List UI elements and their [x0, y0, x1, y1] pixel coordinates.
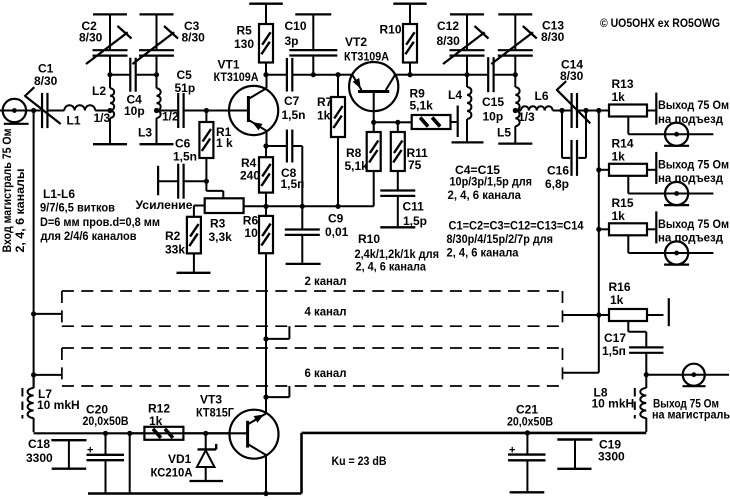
wire C10-R7node [313, 74, 338, 76]
label R3 value [209, 230, 233, 244]
core L8 [634, 388, 636, 419]
label VT3 type [196, 406, 234, 420]
terminal bar R9 [457, 106, 459, 138]
label R7 [317, 95, 333, 109]
svg-text:VD1: VD1 [168, 452, 192, 466]
inductor L8 [640, 375, 646, 432]
node R7 bottom [335, 204, 340, 209]
ground C21 [510, 491, 545, 493]
label L2 tap [94, 111, 111, 125]
label C2 value [79, 31, 103, 45]
label C8 value [281, 177, 305, 191]
resistor R11 [391, 122, 405, 190]
wire left boxA [34, 313, 62, 315]
potentiometer R3 [205, 198, 244, 213]
label 6 канал [305, 366, 347, 380]
node C10 rail [311, 72, 316, 77]
svg-text:C9: C9 [328, 212, 344, 226]
node L5 tap [513, 108, 518, 113]
svg-text:VT3: VT3 [200, 393, 222, 407]
svg-text:130: 130 [234, 37, 254, 51]
label VT2 [345, 35, 367, 49]
wall terminal R16 [668, 298, 670, 326]
svg-text:1,5n: 1,5n [282, 108, 306, 122]
terminal bar C13 [498, 13, 532, 15]
wire mid bus [265, 253, 267, 413]
wire R9-bar [451, 121, 457, 123]
diode VD1 КС210А zener [197, 433, 216, 481]
wall terminal R13 [655, 93, 657, 125]
terminal bar C2 [93, 13, 127, 15]
node R4/R6 rail [263, 204, 268, 209]
node bus R14 [596, 167, 601, 172]
label C1 value [34, 74, 58, 88]
svg-text:2 канал: 2 канал [305, 274, 347, 288]
label C10 value [285, 34, 299, 48]
label R14 value [612, 149, 626, 163]
label R5 [237, 24, 253, 38]
label R1 value [216, 136, 233, 150]
resistor R14 [599, 164, 656, 176]
resistor R15 [599, 223, 656, 235]
label Выход 75 Ом 2 [658, 157, 729, 171]
node R1 top [204, 108, 209, 113]
label 2, 4, 6 каналы (rotated) [13, 169, 27, 253]
wire C5-VT1 base [184, 110, 249, 112]
label C2 [82, 19, 98, 33]
node R5/VT1 collector [263, 72, 268, 77]
svg-text:L4: L4 [448, 88, 462, 102]
label R7 value [317, 109, 331, 123]
label R3 [210, 217, 226, 231]
svg-text:2, 4, 6 канала: 2, 4, 6 канала [447, 246, 519, 260]
svg-text:Выход 75 Ом: Выход 75 Ом [658, 157, 729, 171]
note L1-L6 line4 [41, 229, 137, 243]
svg-text:10p: 10p [483, 110, 504, 124]
label R11 value [408, 158, 422, 172]
node left bus box A [31, 311, 36, 316]
label C21 value [507, 415, 553, 429]
label C4 [127, 93, 143, 107]
svg-text:L6: L6 [535, 89, 549, 103]
ground VD1 [190, 480, 224, 482]
svg-text:R3: R3 [210, 217, 226, 231]
label L3 tap [162, 110, 179, 124]
label C13 value [541, 30, 565, 44]
label R5 value [234, 37, 254, 51]
svg-text:5,1k: 5,1k [345, 159, 369, 173]
svg-text:D=6 мм пров.d=0,8 мм: D=6 мм пров.d=0,8 мм [40, 215, 160, 229]
svg-text:8/30: 8/30 [541, 30, 565, 44]
label C12 [437, 19, 459, 33]
wire left bus down [33, 111, 35, 389]
svg-text:R14: R14 [612, 136, 634, 150]
svg-text:C16: C16 [547, 164, 569, 178]
node C12/L4 [464, 72, 469, 77]
svg-text:1,5п: 1,5п [281, 177, 305, 191]
node output bus top [596, 108, 601, 113]
label L8 value [592, 397, 635, 411]
svg-text:1k: 1k [612, 149, 626, 163]
label C11 value [403, 214, 427, 228]
wire C7-C10 [292, 74, 313, 76]
label C18 [28, 437, 50, 451]
label Вход магистраль 75 Ом (rotated) [0, 128, 14, 252]
label C7 value [282, 108, 306, 122]
capacitor C6 [178, 164, 183, 199]
wire step boxA [266, 326, 289, 339]
capacitor C17 [629, 347, 663, 374]
wire left rail [34, 432, 230, 434]
svg-text:L5: L5 [497, 126, 511, 140]
wire to R9 [398, 121, 412, 123]
svg-text:на подъезд: на подъезд [658, 171, 723, 185]
svg-text:C18: C18 [28, 437, 50, 451]
terminal bar R10 [393, 3, 426, 5]
svg-text:на магистраль: на магистраль [652, 408, 730, 422]
svg-text:R7: R7 [317, 95, 333, 109]
capacitor C20 electrolytic [87, 433, 125, 493]
svg-text:C1=C2=C3=C12=C13=C14: C1=C2=C3=C12=C13=C14 [449, 219, 584, 233]
label L1 [67, 114, 81, 128]
capacitor C8 [287, 130, 292, 163]
transistor VT3 КТ815Г [230, 410, 279, 494]
label R13 [612, 77, 634, 91]
label VT1 type [214, 70, 259, 84]
note C4=C15 line3 [448, 188, 522, 202]
node C20 top [103, 431, 108, 436]
capacitor C10 [289, 16, 337, 75]
node R11 top [395, 120, 400, 125]
capacitor C19 [557, 440, 592, 469]
label C19 value [598, 450, 625, 464]
svg-text:R13: R13 [612, 77, 634, 91]
label L4 [448, 88, 462, 102]
svg-text:КТ3109А: КТ3109А [344, 50, 389, 64]
svg-text:КТ815Г: КТ815Г [196, 406, 234, 420]
svg-text:КС210А: КС210А [151, 466, 193, 480]
label L8 [594, 386, 608, 400]
label C3 value [182, 31, 206, 45]
wire node-C7 [266, 74, 287, 76]
capacitor C21 electrolytic [508, 433, 546, 491]
note C1= line3 [447, 246, 519, 260]
wire L1-L2 [95, 110, 110, 112]
svg-text:R8: R8 [346, 146, 362, 160]
inductor L1 [64, 105, 95, 110]
inductor L2 [110, 75, 114, 144]
svg-text:3300: 3300 [26, 451, 53, 465]
ground C11 [380, 226, 415, 228]
wire right boxA [563, 314, 599, 316]
terminal bar C12 [450, 13, 484, 15]
label R6 [243, 214, 259, 228]
wire emitter-C8 [266, 145, 287, 147]
node left bus box B [31, 372, 36, 377]
capacitor C3 8/30 [133, 16, 179, 75]
svg-text:2, 4, 6 канала: 2, 4, 6 канала [356, 260, 427, 274]
label C16 [547, 164, 569, 178]
svg-text:1,5п: 1,5п [602, 344, 626, 358]
svg-text:3,3k: 3,3k [209, 230, 233, 244]
label C20 [86, 403, 108, 417]
svg-text:1k: 1k [149, 414, 163, 428]
label C6 [175, 137, 191, 151]
node mid bus step A [263, 336, 268, 341]
node L3 tap [154, 108, 159, 113]
svg-text:10: 10 [244, 226, 258, 240]
label R12 value [149, 414, 163, 428]
wire L6-C14 [553, 110, 572, 112]
label R13 value [612, 90, 626, 104]
note L1-L6 line1 [43, 187, 75, 201]
note L1-L6 line2 [40, 201, 115, 215]
svg-text:3300: 3300 [598, 450, 625, 464]
node C13/L5 [513, 72, 518, 77]
label R4 value [240, 169, 260, 183]
svg-text:8/30: 8/30 [34, 74, 58, 88]
wire C1-L1 [47, 110, 64, 112]
label 4 канал [305, 305, 347, 319]
label VT3 [200, 393, 222, 407]
svg-text:© UO5OHX ex RO5OWG: © UO5OHX ex RO5OWG [600, 16, 720, 30]
capacitor C15 [488, 57, 493, 92]
input coax connector XW1 [3, 99, 29, 124]
resistor R12 1k [130, 427, 206, 440]
wall terminal R14 [655, 152, 657, 184]
output connector 1 [664, 123, 689, 146]
wire L5tap-L6 [515, 110, 521, 112]
note Ku [332, 454, 387, 468]
note R10 line2 [355, 247, 440, 261]
node R10 bottom [407, 72, 412, 77]
svg-text:на подъезд: на подъезд [658, 112, 723, 126]
svg-text:R15: R15 [612, 196, 634, 210]
svg-text:C6: C6 [175, 137, 191, 151]
node mid bus step B [263, 395, 268, 400]
svg-text:L1-L6: L1-L6 [43, 187, 75, 201]
svg-text:1/2: 1/2 [162, 110, 179, 124]
svg-text:C5: C5 [177, 68, 193, 82]
label R14 [612, 136, 634, 150]
output connector 3 [664, 241, 689, 264]
label на подъезд 2 [658, 171, 723, 185]
terminal bar R5 [249, 3, 283, 5]
svg-text:240: 240 [240, 169, 260, 183]
label C9 value [325, 225, 349, 239]
label C8 [281, 166, 297, 180]
label L7 value [37, 398, 80, 412]
label R6 value [244, 226, 258, 240]
wire R10-C12 [410, 74, 467, 76]
wire step boxB [266, 386, 289, 397]
svg-text:КТ3109А: КТ3109А [214, 70, 259, 84]
svg-text:10 mkH: 10 mkH [592, 397, 635, 411]
label R9 value [410, 99, 434, 113]
label C4 value [124, 104, 145, 118]
wire C16 loop [562, 111, 586, 158]
svg-text:Вход магистраль 75 Ом: Вход магистраль 75 Ом [0, 128, 14, 252]
resistor R6 [259, 206, 273, 253]
resistor R5 [259, 4, 273, 75]
label L6 [535, 89, 549, 103]
label R2 [165, 229, 181, 243]
terminal bar C10 [295, 13, 331, 15]
svg-text:R2: R2 [165, 229, 181, 243]
label Усиление [136, 198, 193, 212]
svg-text:0,01: 0,01 [325, 225, 349, 239]
copyright [600, 16, 720, 30]
node VD1 top [203, 431, 208, 436]
svg-text:5,1k: 5,1k [410, 99, 434, 113]
svg-text:33k: 33k [165, 243, 185, 257]
label C5 value [175, 81, 196, 95]
output connector 4 [683, 364, 706, 387]
capacitor C5 [178, 93, 183, 128]
svg-text:C17: C17 [604, 331, 626, 345]
svg-text:3p: 3p [285, 34, 299, 48]
label R15 [612, 196, 634, 210]
resistor R2 [187, 217, 201, 272]
ground R2 [177, 272, 211, 274]
svg-text:1k: 1k [610, 293, 624, 307]
label C17 value [602, 344, 626, 358]
resistor R13 [599, 105, 656, 117]
label R10 [380, 23, 402, 37]
node C14 left [559, 108, 564, 113]
node R7 top [335, 72, 340, 77]
label Выход 75 Ом 3 [658, 217, 729, 231]
label C14 value [560, 69, 584, 83]
wire base line [374, 121, 398, 123]
label C12 value [437, 34, 461, 48]
label C7 [284, 94, 300, 108]
capacitor C18 [51, 440, 86, 469]
label R4 [241, 156, 257, 170]
ground L2 [93, 143, 127, 145]
svg-text:4 канал: 4 канал [305, 305, 347, 319]
wire input line [0, 110, 41, 112]
node C17/L8 [644, 372, 649, 377]
svg-text:1k: 1k [612, 209, 626, 223]
svg-text:20,0x50В: 20,0x50В [507, 415, 553, 429]
resistor R4 [259, 146, 273, 206]
inductor L5 [515, 75, 519, 143]
label R11 [407, 146, 429, 160]
inductor L6 [521, 106, 553, 110]
inductor L4 [467, 75, 471, 142]
resistor R7 [331, 75, 345, 207]
label на подъезд 1 [658, 112, 723, 126]
capacitor C11 [380, 191, 415, 227]
ground L3 [140, 143, 174, 145]
note L1-L6 line3 [40, 215, 160, 229]
inductor L3 [157, 75, 161, 144]
svg-text:6,8p: 6,8p [545, 177, 569, 191]
svg-text:VT2: VT2 [345, 35, 367, 49]
svg-text:8/30: 8/30 [79, 31, 103, 45]
svg-text:1k: 1k [612, 90, 626, 104]
label L3 [138, 126, 152, 140]
label C10 [285, 19, 307, 33]
ground L4 [452, 141, 484, 143]
label VT1 [218, 58, 240, 72]
label C6 value [173, 150, 197, 164]
capacitor C4 [130, 58, 135, 92]
label C16 value [545, 177, 569, 191]
note C4=C15 line1 [455, 163, 500, 177]
capacitor C9 [285, 206, 320, 262]
label R12 [148, 402, 170, 416]
label C14 [561, 58, 583, 72]
svg-text:10 mkH: 10 mkH [37, 398, 80, 412]
svg-text:Выход 75 Ом: Выход 75 Ом [658, 98, 729, 112]
svg-text:1,5р: 1,5р [403, 214, 427, 228]
wire VT2-R10 [395, 74, 410, 76]
label C11 [403, 200, 425, 214]
wire bottom ground rail [88, 492, 302, 495]
transistor VT2 КТ3109А [349, 62, 398, 122]
label 2 канал [305, 274, 347, 288]
node VT3 collector ground [263, 491, 268, 496]
note R10 line3 [356, 260, 427, 274]
svg-text:L3: L3 [138, 126, 152, 140]
wire right return rail [302, 432, 647, 435]
capacitor C16 [572, 140, 578, 176]
node L2 tap [107, 108, 112, 113]
wire left boxB [34, 374, 62, 376]
svg-text:для 2/4/6 каналов: для 2/4/6 каналов [41, 229, 137, 243]
label R1 [216, 125, 232, 139]
svg-text:2, 4, 6 каналы: 2, 4, 6 каналы [13, 169, 27, 253]
svg-text:9/7/6,5 витков: 9/7/6,5 витков [40, 201, 115, 215]
label R8 value [345, 159, 369, 173]
label C15 [482, 95, 504, 109]
svg-text:C12: C12 [437, 19, 459, 33]
label C15 value [483, 110, 504, 124]
node rail wire [127, 431, 132, 436]
wire C4-C3 [136, 74, 157, 76]
note R10 line1 [358, 232, 380, 246]
wire bar-C6 [158, 180, 177, 182]
wire R15-connector [628, 235, 713, 253]
label L5 tap [518, 110, 535, 124]
svg-text:C11: C11 [403, 200, 425, 214]
svg-text:51p: 51p [175, 81, 196, 95]
svg-text:L2: L2 [92, 84, 106, 98]
wire L3-C5 [157, 110, 179, 112]
label C1 [38, 62, 54, 76]
svg-text:+: + [509, 444, 515, 456]
svg-text:R10: R10 [380, 23, 402, 37]
svg-text:2, 4, 6 канала: 2, 4, 6 канала [448, 188, 522, 202]
wire VD1-VT3 [206, 432, 248, 434]
wire R3 left lead [194, 206, 205, 217]
wire C6-node [184, 180, 206, 182]
node bus R15 [596, 227, 601, 232]
svg-text:8/30: 8/30 [182, 31, 206, 45]
svg-text:R5: R5 [237, 24, 253, 38]
svg-text:Ku = 23 dB: Ku = 23 dB [332, 454, 387, 468]
label C13 [542, 19, 564, 33]
label R8 [346, 146, 362, 160]
core L7 [21, 388, 23, 419]
wire C2-C4 [110, 74, 130, 76]
channel box 4 канал [62, 291, 563, 326]
label L7 [38, 387, 52, 401]
wire ground step [300, 433, 303, 494]
label C9 [328, 212, 344, 226]
